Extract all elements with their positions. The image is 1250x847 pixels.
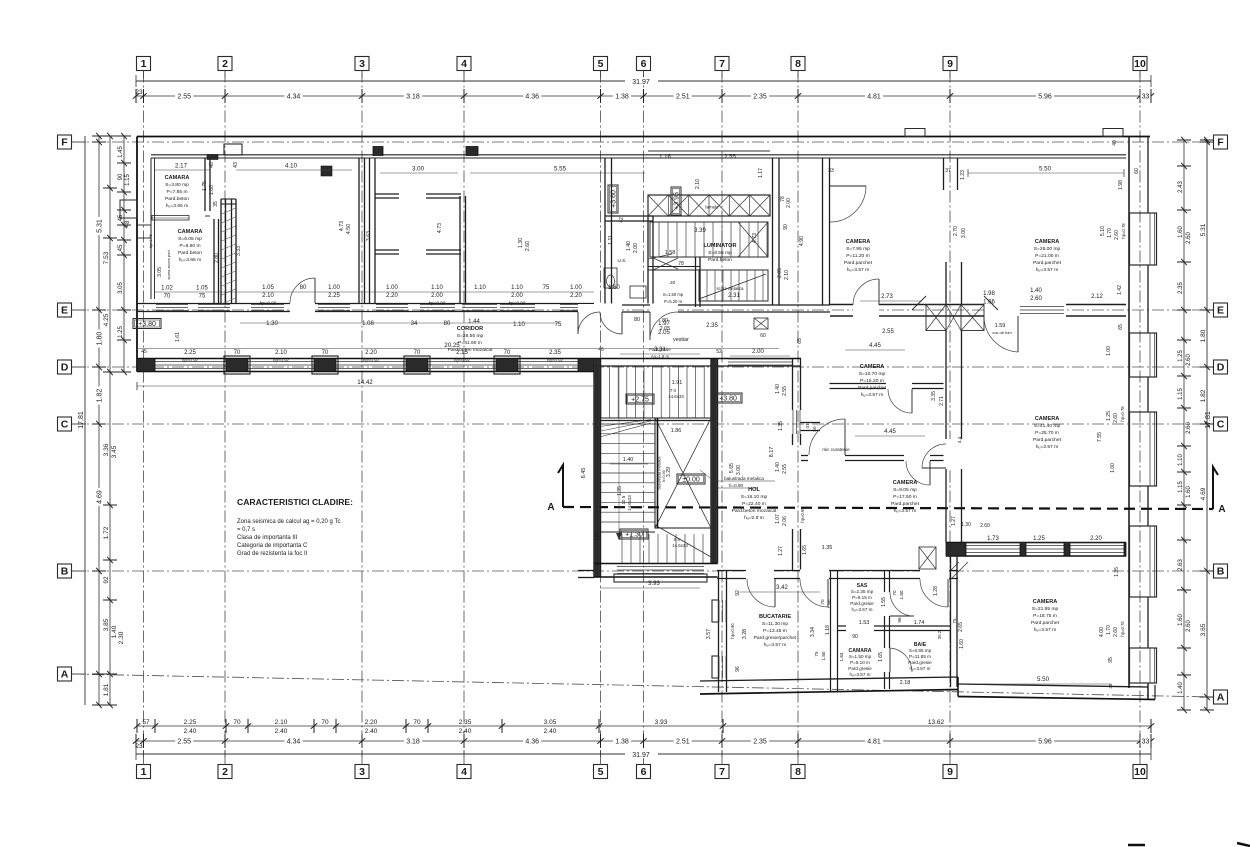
svg-text:S=10.70 mp: S=10.70 mp: [859, 371, 886, 377]
svg-text:2.00: 2.00: [511, 293, 523, 299]
svg-text:75: 75: [814, 651, 819, 657]
axis 10 vertical grid line: [1139, 71, 1141, 758]
svg-text:hp=0.92: hp=0.92: [182, 358, 199, 363]
svg-text:1.05: 1.05: [196, 286, 208, 292]
svg-text:3.00: 3.00: [412, 166, 425, 173]
svg-text:42: 42: [619, 217, 625, 223]
svg-text:1.40: 1.40: [623, 457, 634, 463]
svg-text:Pard.parchet: Pard.parchet: [844, 260, 873, 266]
svg-text:2.80: 2.80: [214, 253, 220, 263]
grid marker 2 bottom: [218, 765, 232, 779]
svg-text:1.10: 1.10: [474, 285, 486, 291]
svg-text:35.2: 35.2: [937, 630, 942, 639]
svg-text:1.35: 1.35: [778, 421, 784, 431]
svg-text:2.55: 2.55: [782, 464, 788, 474]
svg-text:3.18: 3.18: [406, 94, 420, 101]
svg-text:5.10: 5.10: [1100, 226, 1106, 236]
sas east wall: [884, 571, 886, 630]
svg-text:1.44: 1.44: [468, 319, 480, 325]
svg-text:S=2.35 mp: S=2.35 mp: [851, 589, 874, 594]
camera 2195 west wall: [950, 556, 952, 687]
svg-text:CAMERA: CAMERA: [846, 239, 871, 245]
grid marker 7 top: [715, 57, 729, 71]
svg-text:hp=0.92: hp=0.92: [454, 358, 471, 363]
door axis9 wall: [945, 439, 963, 469]
svg-text:1: 1: [141, 766, 147, 778]
top overall dimension 31.97: [136, 80, 1151, 82]
level 0.00: [677, 474, 705, 484]
svg-text:70: 70: [414, 350, 421, 356]
grid marker C right: [1214, 417, 1228, 431]
svg-text:2.00: 2.00: [633, 243, 639, 253]
camara1 east wall: [204, 158, 206, 211]
svg-text:B: B: [61, 566, 69, 578]
camara2 east wall: [213, 219, 215, 304]
svg-text:Pard.gresie/parchet: Pard.gresie/parchet: [754, 635, 797, 641]
svg-text:2: 2: [222, 766, 228, 778]
svg-text:1.27: 1.27: [778, 546, 784, 556]
svg-text:8: 8: [795, 58, 801, 70]
east exterior wall: [1128, 137, 1130, 689]
svg-text:1.72: 1.72: [103, 526, 110, 539]
svg-text:4.81: 4.81: [867, 94, 881, 101]
svg-text:2.65: 2.65: [958, 622, 964, 632]
svg-text:1.42: 1.42: [1117, 285, 1123, 295]
stair central luminator panel: [655, 418, 711, 528]
svg-text:2.25: 2.25: [184, 350, 196, 356]
grid marker 3 top: [355, 57, 369, 71]
svg-text:80: 80: [300, 285, 307, 291]
left secondary dim chain: [109, 136, 111, 705]
axis 6 vertical grid line: [643, 71, 645, 758]
small rooms wall y458: [801, 455, 944, 457]
svg-text:1.38: 1.38: [615, 94, 629, 101]
svg-text:5.65: 5.65: [729, 463, 735, 473]
grid marker 1 top: [137, 57, 151, 71]
axis 8 vertical grid line: [797, 71, 799, 758]
svg-text:1.40: 1.40: [775, 462, 781, 472]
grid marker F left: [58, 135, 72, 149]
svg-text:P=22.40 m: P=22.40 m: [742, 501, 766, 507]
svg-text:lamele: lamele: [705, 205, 719, 210]
svg-text:E: E: [1217, 305, 1224, 317]
upper stair treads band1: [650, 222, 768, 257]
svg-text:43: 43: [233, 162, 239, 168]
svg-text:3.57: 3.57: [706, 629, 712, 639]
svg-text:scara acces pod: scara acces pod: [166, 250, 171, 279]
svg-text:hᵤ=3.57 m: hᵤ=3.57 m: [851, 607, 872, 612]
dim 20.25: [137, 348, 779, 350]
svg-text:2.40: 2.40: [184, 728, 197, 735]
wall axis5 upper: [604, 158, 606, 304]
svg-text:2.40: 2.40: [275, 728, 288, 735]
svg-text:4.45: 4.45: [884, 429, 896, 435]
svg-text:1.10: 1.10: [1178, 454, 1184, 466]
svg-text:1.60: 1.60: [608, 285, 620, 291]
svg-text:9: 9: [947, 58, 953, 70]
svg-text:3.35: 3.35: [931, 391, 937, 401]
svg-text:1.05: 1.05: [262, 285, 274, 291]
svg-text:1.30: 1.30: [961, 522, 971, 528]
svg-text:5.31: 5.31: [1200, 223, 1207, 236]
svg-text:2.60: 2.60: [1186, 620, 1192, 632]
svg-text:1.15: 1.15: [1178, 388, 1184, 400]
svg-text:2.18: 2.18: [900, 680, 911, 686]
sas west wall: [830, 571, 832, 692]
svg-text:U.S.: U.S.: [618, 258, 627, 263]
closet stubs room 3: [375, 193, 399, 195]
svg-text:cos de fum: cos de fum: [992, 330, 1012, 335]
grid marker E left: [58, 303, 72, 317]
svg-text:4.00: 4.00: [1099, 627, 1105, 637]
left overall dimension 17.81: [84, 136, 86, 705]
svg-text:B: B: [1217, 566, 1225, 578]
svg-text:1.25: 1.25: [1106, 411, 1112, 421]
svg-text:P=6.15 m: P=6.15 m: [852, 595, 872, 600]
south corridor windowed wall: [137, 358, 594, 360]
mic curatenie door: [844, 419, 846, 455]
E wall right segment: [830, 304, 1126, 306]
svg-text:S=6.85 mp: S=6.85 mp: [909, 648, 932, 653]
vestiar door opening: [650, 304, 678, 313]
svg-text:2.30: 2.30: [118, 631, 125, 644]
svg-text:70: 70: [892, 590, 897, 596]
axis 5 vertical grid line: [600, 71, 602, 758]
level +3.80 stairs: [714, 393, 742, 403]
svg-text:1.23: 1.23: [960, 170, 966, 180]
svg-text:2.60: 2.60: [1186, 354, 1192, 366]
svg-text:1.18: 1.18: [825, 625, 831, 635]
svg-text:CAMARA: CAMARA: [165, 175, 190, 181]
camara-baie wall: [838, 625, 951, 627]
axis9 wall mid: [945, 262, 947, 304]
svg-text:1.60: 1.60: [1178, 614, 1184, 626]
svg-text:1.65: 1.65: [802, 545, 808, 555]
upper stair treads band2: [699, 270, 768, 301]
svg-text:3.65: 3.65: [1200, 623, 1207, 636]
left axis dim chain: [98, 136, 100, 705]
stair left flight treads: [601, 423, 656, 425]
sas north wall doors: [830, 570, 958, 572]
svg-text:4.73: 4.73: [437, 223, 443, 233]
svg-text:4.36: 4.36: [525, 94, 539, 101]
svg-text:1.60: 1.60: [1178, 226, 1184, 238]
grid marker 4 bottom: [457, 765, 471, 779]
svg-text:S=1.50 mp: S=1.50 mp: [663, 292, 684, 297]
svg-text:S=11.30 mp: S=11.30 mp: [762, 621, 788, 627]
grid marker 8 bottom: [791, 765, 805, 779]
vestibule east wall upper: [792, 359, 794, 411]
svg-text:31.97: 31.97: [632, 752, 650, 759]
vestiar shaft xbox: [754, 318, 768, 329]
svg-text:2.60: 2.60: [1186, 422, 1192, 434]
svg-text:1.65: 1.65: [878, 652, 884, 662]
svg-text:33: 33: [1142, 94, 1150, 101]
corridor-vestiar double door: [578, 304, 622, 313]
grid marker 7 bottom: [715, 765, 729, 779]
grid marker 3 bottom: [355, 765, 369, 779]
svg-text:3.05: 3.05: [118, 282, 124, 294]
svg-text:1.86: 1.86: [671, 428, 682, 434]
svg-text:P=41.90 m: P=41.90 m: [458, 340, 482, 346]
chimney rect above north wall near axis 2: [224, 144, 242, 155]
svg-text:90: 90: [783, 224, 789, 230]
grid marker 10 bottom: [1133, 765, 1147, 779]
svg-text:70: 70: [820, 599, 825, 605]
svg-text:hp=0.90: hp=0.90: [509, 301, 526, 306]
svg-text:2.20: 2.20: [386, 293, 398, 299]
svg-text:2.60: 2.60: [1114, 230, 1120, 240]
svg-text:1.80: 1.80: [97, 332, 104, 346]
svg-text:.40: .40: [669, 280, 676, 285]
svg-text:2.00: 2.00: [431, 293, 443, 299]
svg-text:92: 92: [103, 576, 110, 584]
svg-text:4.34: 4.34: [287, 94, 301, 101]
svg-text:2.43: 2.43: [1178, 181, 1184, 193]
svg-text:1.58: 1.58: [665, 250, 676, 256]
door camera 4140: [1017, 316, 1019, 352]
svg-text:3.36: 3.36: [103, 443, 110, 456]
svg-text:1.25: 1.25: [1178, 350, 1184, 362]
svg-text:90: 90: [852, 634, 858, 640]
corridor door room23: [290, 303, 315, 313]
svg-text:1.55: 1.55: [881, 597, 887, 607]
svg-text:CORIDOR: CORIDOR: [457, 326, 483, 332]
north wall sill marks: [905, 129, 925, 137]
svg-text:1.25: 1.25: [118, 326, 124, 338]
partition wall rooms mid (axis3): [358, 158, 360, 304]
svg-text:80: 80: [662, 318, 668, 324]
svg-text:1.60: 1.60: [1186, 486, 1192, 498]
svg-text:1.00: 1.00: [328, 285, 340, 291]
svg-text:38: 38: [1108, 683, 1113, 689]
svg-text:LUMINATOR: LUMINATOR: [703, 243, 736, 249]
svg-text:1.10: 1.10: [511, 285, 523, 291]
svg-text:hp=0.90: hp=0.90: [260, 301, 277, 306]
svg-text:5.96: 5.96: [1038, 739, 1052, 746]
grid marker F right: [1214, 135, 1228, 149]
svg-text:2.60: 2.60: [1186, 232, 1192, 244]
level +3.95 vertical: [671, 187, 681, 215]
svg-text:2.31: 2.31: [728, 293, 740, 299]
svg-text:S=6.05 mp: S=6.05 mp: [178, 236, 202, 242]
svg-text:7 tr: 7 tr: [670, 388, 677, 393]
svg-text:4.90: 4.90: [799, 236, 805, 246]
svg-text:+3.80: +3.80: [138, 321, 156, 328]
section line A-A: [563, 507, 1213, 509]
svg-text:48: 48: [125, 220, 131, 227]
svg-text:33: 33: [1142, 739, 1150, 746]
svg-text:1.98: 1.98: [983, 291, 995, 297]
camara1 shelf: [152, 216, 189, 221]
svg-text:S=3.80 mp: S=3.80 mp: [165, 182, 189, 188]
svg-text:1.73: 1.73: [987, 536, 999, 542]
small room us wall: [605, 215, 653, 217]
shaft double wall at axis 2-3: [220, 199, 222, 304]
svg-text:13.62: 13.62: [928, 719, 945, 726]
svg-text:2.25: 2.25: [184, 719, 197, 726]
svg-text:3.85: 3.85: [103, 618, 110, 631]
svg-text:3.63: 3.63: [366, 231, 372, 241]
svg-text:hp=0.95: hp=0.95: [800, 507, 805, 523]
svg-text:Pard.beton: Pard.beton: [165, 196, 189, 202]
svg-text:2.10: 2.10: [275, 350, 287, 356]
us fixtures: [604, 268, 617, 288]
svg-text:3.00: 3.00: [736, 465, 742, 475]
svg-text:14.42: 14.42: [357, 379, 373, 386]
axis 9 vertical grid line: [949, 71, 951, 758]
svg-text:P=9.90 m: P=9.90 m: [179, 243, 200, 249]
marker connector stubs: [143, 71, 145, 79]
svg-text:3.05: 3.05: [544, 719, 557, 726]
svg-text:6.45: 6.45: [581, 468, 587, 479]
svg-text:1.82: 1.82: [97, 389, 104, 403]
svg-text:CAMERA: CAMERA: [893, 480, 918, 486]
svg-text:1.00: 1.00: [386, 285, 398, 291]
svg-text:3.28: 3.28: [742, 629, 748, 639]
svg-text:Pard.gresie: Pard.gresie: [850, 601, 874, 606]
svg-text:4.73: 4.73: [752, 233, 758, 243]
svg-text:9 tr: 9 tr: [674, 537, 681, 542]
svg-text:3.18: 3.18: [406, 739, 420, 746]
svg-text:hp=0.78: hp=0.78: [1121, 223, 1126, 239]
svg-text:hp=0.90: hp=0.90: [429, 301, 446, 306]
svg-text:1.00: 1.00: [570, 285, 582, 291]
svg-text:2.35: 2.35: [753, 739, 767, 746]
svg-text:3.42: 3.42: [776, 585, 788, 591]
svg-text:P=25.70 m: P=25.70 m: [1035, 430, 1059, 436]
svg-text:78: 78: [678, 261, 684, 267]
svg-text:scara metalica: scara metalica: [717, 286, 745, 291]
east wall window boxes: [1130, 213, 1157, 265]
svg-text:3: 3: [359, 766, 365, 778]
svg-text:hp=1.45: hp=1.45: [149, 234, 153, 248]
svg-text:P=5.10 m: P=5.10 m: [850, 660, 870, 665]
svg-text:A: A: [547, 502, 554, 513]
svg-text:4: 4: [461, 58, 467, 70]
svg-text:hp=0.90: hp=0.90: [730, 623, 735, 639]
svg-text:1.00: 1.00: [209, 185, 215, 195]
svg-text:40: 40: [1112, 140, 1118, 146]
svg-text:2.20: 2.20: [570, 293, 582, 299]
svg-text:P=17.50 m: P=17.50 m: [893, 494, 917, 500]
axis 4 vertical grid line: [463, 71, 465, 758]
svg-text:5.31: 5.31: [97, 219, 104, 233]
svg-text:1.16: 1.16: [659, 155, 671, 161]
svg-text:4.10: 4.10: [285, 163, 298, 170]
door into camera 7.95: [830, 185, 866, 187]
svg-text:3.31: 3.31: [654, 347, 666, 353]
svg-text:10: 10: [1134, 766, 1146, 778]
axis9 top wall stub: [943, 158, 945, 190]
svg-text:3.33: 3.33: [236, 246, 242, 256]
grid marker B right: [1214, 564, 1228, 578]
north wall junction marks: [373, 147, 383, 156]
svg-text:1.60: 1.60: [959, 639, 965, 649]
axis E horizontal grid line: [72, 309, 1213, 311]
svg-text:2.20: 2.20: [1090, 536, 1102, 542]
grid marker 6 top: [637, 57, 651, 71]
grid marker A right: [1214, 690, 1228, 704]
dim 14.42: [137, 385, 594, 387]
grid marker 5 top: [594, 57, 608, 71]
axis 7 vertical grid line: [721, 71, 723, 758]
svg-text:1.75: 1.75: [202, 181, 208, 191]
svg-text:2.71: 2.71: [939, 396, 945, 406]
svg-text:S=16.10 mp: S=16.10 mp: [741, 494, 768, 500]
svg-text:2.70: 2.70: [953, 226, 959, 236]
svg-text:3.34: 3.34: [810, 627, 816, 637]
svg-text:2.35: 2.35: [549, 350, 561, 356]
svg-text:2.63: 2.63: [1178, 559, 1184, 571]
svg-text:1.25: 1.25: [1033, 536, 1045, 542]
axis B horizontal grid line: [72, 570, 1213, 572]
svg-text:34: 34: [411, 321, 418, 327]
axis9 wall lower: [945, 330, 947, 440]
svg-text:60: 60: [760, 333, 766, 339]
svg-text:S=41.40 mp: S=41.40 mp: [1034, 423, 1061, 429]
svg-text:hᵤ=3.57 m: hᵤ=3.57 m: [909, 666, 930, 671]
svg-text:hᵤ=3.57 m: hᵤ=3.57 m: [861, 392, 883, 398]
svg-text:1.15: 1.15: [125, 174, 131, 186]
svg-text:5.50: 5.50: [1039, 166, 1052, 173]
svg-text:mic curatenie: mic curatenie: [822, 447, 850, 452]
svg-text:Pard.beton: Pard.beton: [708, 257, 732, 263]
svg-text:A: A: [61, 669, 69, 681]
svg-text:hp=0.78: hp=0.78: [1120, 406, 1125, 422]
svg-text:2.60: 2.60: [1113, 627, 1119, 637]
grid marker D right: [1214, 360, 1228, 374]
svg-text:2.10: 2.10: [262, 293, 274, 299]
bottom wall left section: [700, 690, 958, 695]
svg-text:1.82: 1.82: [1200, 389, 1207, 402]
svg-text:3.39: 3.39: [694, 228, 706, 234]
svg-text:hp=0.92: hp=0.92: [547, 358, 564, 363]
svg-text:1.63: 1.63: [839, 652, 844, 661]
svg-text:P=13.45 m: P=13.45 m: [763, 628, 787, 634]
svg-text:5: 5: [598, 766, 604, 778]
level +1.30: [620, 529, 648, 539]
svg-text:45: 45: [118, 244, 124, 251]
svg-text:4.81: 4.81: [867, 739, 881, 746]
svg-text:h=0.90: h=0.90: [729, 483, 744, 488]
svg-text:2.15: 2.15: [456, 350, 468, 356]
svg-text:1.80: 1.80: [821, 651, 826, 660]
grid marker 5 bottom: [594, 765, 608, 779]
svg-text:1.00: 1.00: [1110, 463, 1116, 473]
svg-text:4.34: 4.34: [287, 739, 301, 746]
grid marker 2 top: [218, 57, 232, 71]
camera4140 south windowed wall: [946, 542, 1126, 544]
svg-text:hᵤ=3.65 m: hᵤ=3.65 m: [179, 257, 201, 263]
baie flue: [919, 547, 936, 569]
axis C horizontal grid line: [72, 423, 1213, 425]
svg-text:hᵤ=3.57 m: hᵤ=3.57 m: [849, 672, 870, 677]
camara baie divider: [884, 631, 886, 690]
svg-text:70: 70: [413, 719, 421, 726]
grid marker 6 bottom: [637, 765, 651, 779]
svg-text:37: 37: [945, 168, 951, 174]
svg-text:1: 1: [141, 58, 147, 70]
svg-text:2.35: 2.35: [753, 94, 767, 101]
svg-text:Pard.parchet: Pard.parchet: [1031, 620, 1060, 626]
svg-text:2.35: 2.35: [1178, 282, 1184, 294]
svg-text:1.70: 1.70: [1107, 228, 1113, 238]
svg-text:D: D: [61, 362, 69, 374]
svg-text:14.6x33: 14.6x33: [668, 394, 684, 399]
us2 room walls: [648, 266, 700, 268]
small rooms wall y386: [830, 383, 944, 385]
